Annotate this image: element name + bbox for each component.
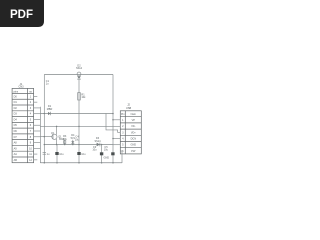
- transistor Q1 label: [51, 132, 65, 141]
- junction dot D4: [72, 144, 74, 146]
- svg-text:10u: 10u: [92, 149, 97, 152]
- wire left bus: [39, 107, 41, 163]
- wire branch upper: [78, 79, 80, 126]
- diode D2 label: [76, 64, 83, 70]
- svg-text:SS14: SS14: [76, 67, 83, 70]
- wire left rail: [43, 75, 45, 164]
- svg-text:10u: 10u: [59, 153, 64, 156]
- svg-text:USB: USB: [126, 107, 131, 110]
- svg-text:VD-: VD-: [131, 125, 135, 128]
- svg-text:10u: 10u: [104, 149, 109, 152]
- svg-text:AB: AB: [14, 159, 18, 162]
- junction dot W1 right: [112, 113, 114, 115]
- wire row4 stub: [113, 138, 120, 140]
- svg-text:VP: VP: [132, 119, 136, 122]
- junction dot row4: [112, 138, 114, 140]
- wire mid rail: [44, 144, 113, 146]
- wire top rail: [44, 74, 113, 76]
- transistor Q1: [40, 126, 57, 144]
- svg-text:10u: 10u: [81, 153, 86, 156]
- capacitor C4 label: [75, 136, 80, 142]
- svg-text:Nam: Nam: [131, 113, 136, 116]
- junction dot R3: [64, 144, 66, 146]
- capacitor C1 label: [46, 80, 50, 86]
- wire right bus: [112, 75, 114, 164]
- wire row4 jog: [106, 114, 120, 133]
- svg-text:AA: AA: [14, 153, 18, 156]
- svg-text:PW: PW: [131, 150, 136, 153]
- junction dots mid rail: [44, 144, 103, 146]
- junction dot W1 left: [44, 113, 46, 115]
- diode D1: [48, 112, 51, 115]
- connector J2 label: [126, 104, 131, 110]
- resistor R3: [63, 135, 68, 144]
- svg-text:MBR: MBR: [47, 108, 53, 111]
- svg-text:GND: GND: [131, 144, 137, 147]
- svg-text:PDF: PDF: [10, 9, 33, 21]
- wire row6 stub: [120, 151, 122, 163]
- resistor R1: [78, 93, 86, 100]
- diode D2: [77, 72, 81, 79]
- wire row5 stub: [113, 144, 120, 146]
- wire ground rail: [40, 162, 122, 164]
- diode D3: [97, 143, 100, 147]
- wire W2: [40, 125, 120, 127]
- svg-text:SS14: SS14: [94, 140, 101, 143]
- table stubs J1: [34, 96, 41, 159]
- connector J1 label: [18, 83, 24, 89]
- connector J2 table: [120, 111, 141, 154]
- svg-text:DCN: DCN: [131, 138, 137, 141]
- svg-text:VD+: VD+: [131, 131, 136, 134]
- PDF badge: [0, 0, 44, 27]
- capacitor C4: [77, 126, 86, 163]
- diode D1 label: [47, 105, 53, 111]
- diode D3 label: [94, 137, 101, 143]
- connector J1 table: [12, 88, 33, 162]
- wire row1 stub: [113, 119, 120, 121]
- capacitor C3: [55, 145, 64, 164]
- junction dots ground rail: [44, 162, 114, 164]
- junction dot Q1 base: [44, 136, 46, 138]
- capacitor C2: [43, 153, 50, 157]
- svg-text:GND: GND: [104, 157, 110, 160]
- junction dot branch: [78, 126, 80, 128]
- svg-text:Pin: Pin: [121, 113, 125, 116]
- capacitor C5: [104, 146, 115, 155]
- capacitor C6: [92, 145, 103, 164]
- junction dot Q1 collector: [56, 126, 58, 128]
- wire W1 VBUS: [40, 113, 113, 115]
- diode D4: [71, 134, 76, 144]
- junction dot row1: [112, 119, 114, 121]
- svg-text:pins: pins: [14, 90, 19, 93]
